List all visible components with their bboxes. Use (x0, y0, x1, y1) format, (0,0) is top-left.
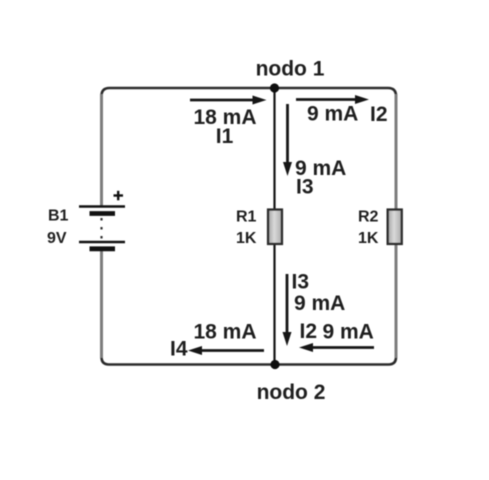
svg-text:B1: B1 (48, 208, 69, 225)
wire bottom horizontal (102, 357, 397, 365)
current arrow I2 (bottom right, 9 mA, left) (299, 343, 374, 352)
svg-text:I2: I2 (300, 320, 318, 343)
svg-text:I3: I3 (292, 271, 310, 294)
svg-text:nodo 2: nodo 2 (257, 381, 326, 404)
svg-text:1K: 1K (236, 230, 257, 247)
svg-text:R1: R1 (236, 209, 257, 226)
resistor R2 (388, 210, 402, 245)
svg-text:nodo 1: nodo 1 (256, 58, 325, 81)
wire left vertical upper (to battery +) (100, 94, 103, 206)
svg-text:9 mA: 9 mA (323, 321, 374, 344)
svg-text:18 mA: 18 mA (193, 321, 256, 344)
svg-text:9 mA: 9 mA (294, 292, 345, 315)
svg-text:I4: I4 (170, 338, 188, 361)
battery plus sign (114, 191, 124, 201)
svg-text:9 mA: 9 mA (307, 103, 358, 126)
resistor R1 (268, 210, 282, 245)
svg-text:1K: 1K (358, 230, 379, 247)
current arrow I3 (upper middle, down) (283, 104, 292, 176)
svg-text:I3: I3 (296, 176, 314, 199)
current arrow I3 (lower middle, down) (283, 274, 292, 346)
wire center vertical (273, 88, 275, 365)
current arrow I4 (bottom left, 18 mA, left) (188, 346, 264, 355)
battery B1 (79, 207, 125, 249)
wire left vertical lower (from battery -) (100, 250, 103, 358)
node 1 junction dot (270, 83, 279, 92)
wire right vertical (395, 94, 398, 358)
node 2 junction dot (270, 360, 279, 369)
wire top horizontal (102, 88, 397, 96)
current arrow I2 (top right, 9 mA, right) (296, 95, 369, 104)
svg-text:I1: I1 (216, 125, 234, 148)
current arrow I1 (top left, 18 mA, right) (190, 96, 267, 105)
svg-text:9V: 9V (47, 230, 67, 247)
svg-text:R2: R2 (358, 209, 379, 226)
svg-text:I2: I2 (370, 103, 388, 126)
